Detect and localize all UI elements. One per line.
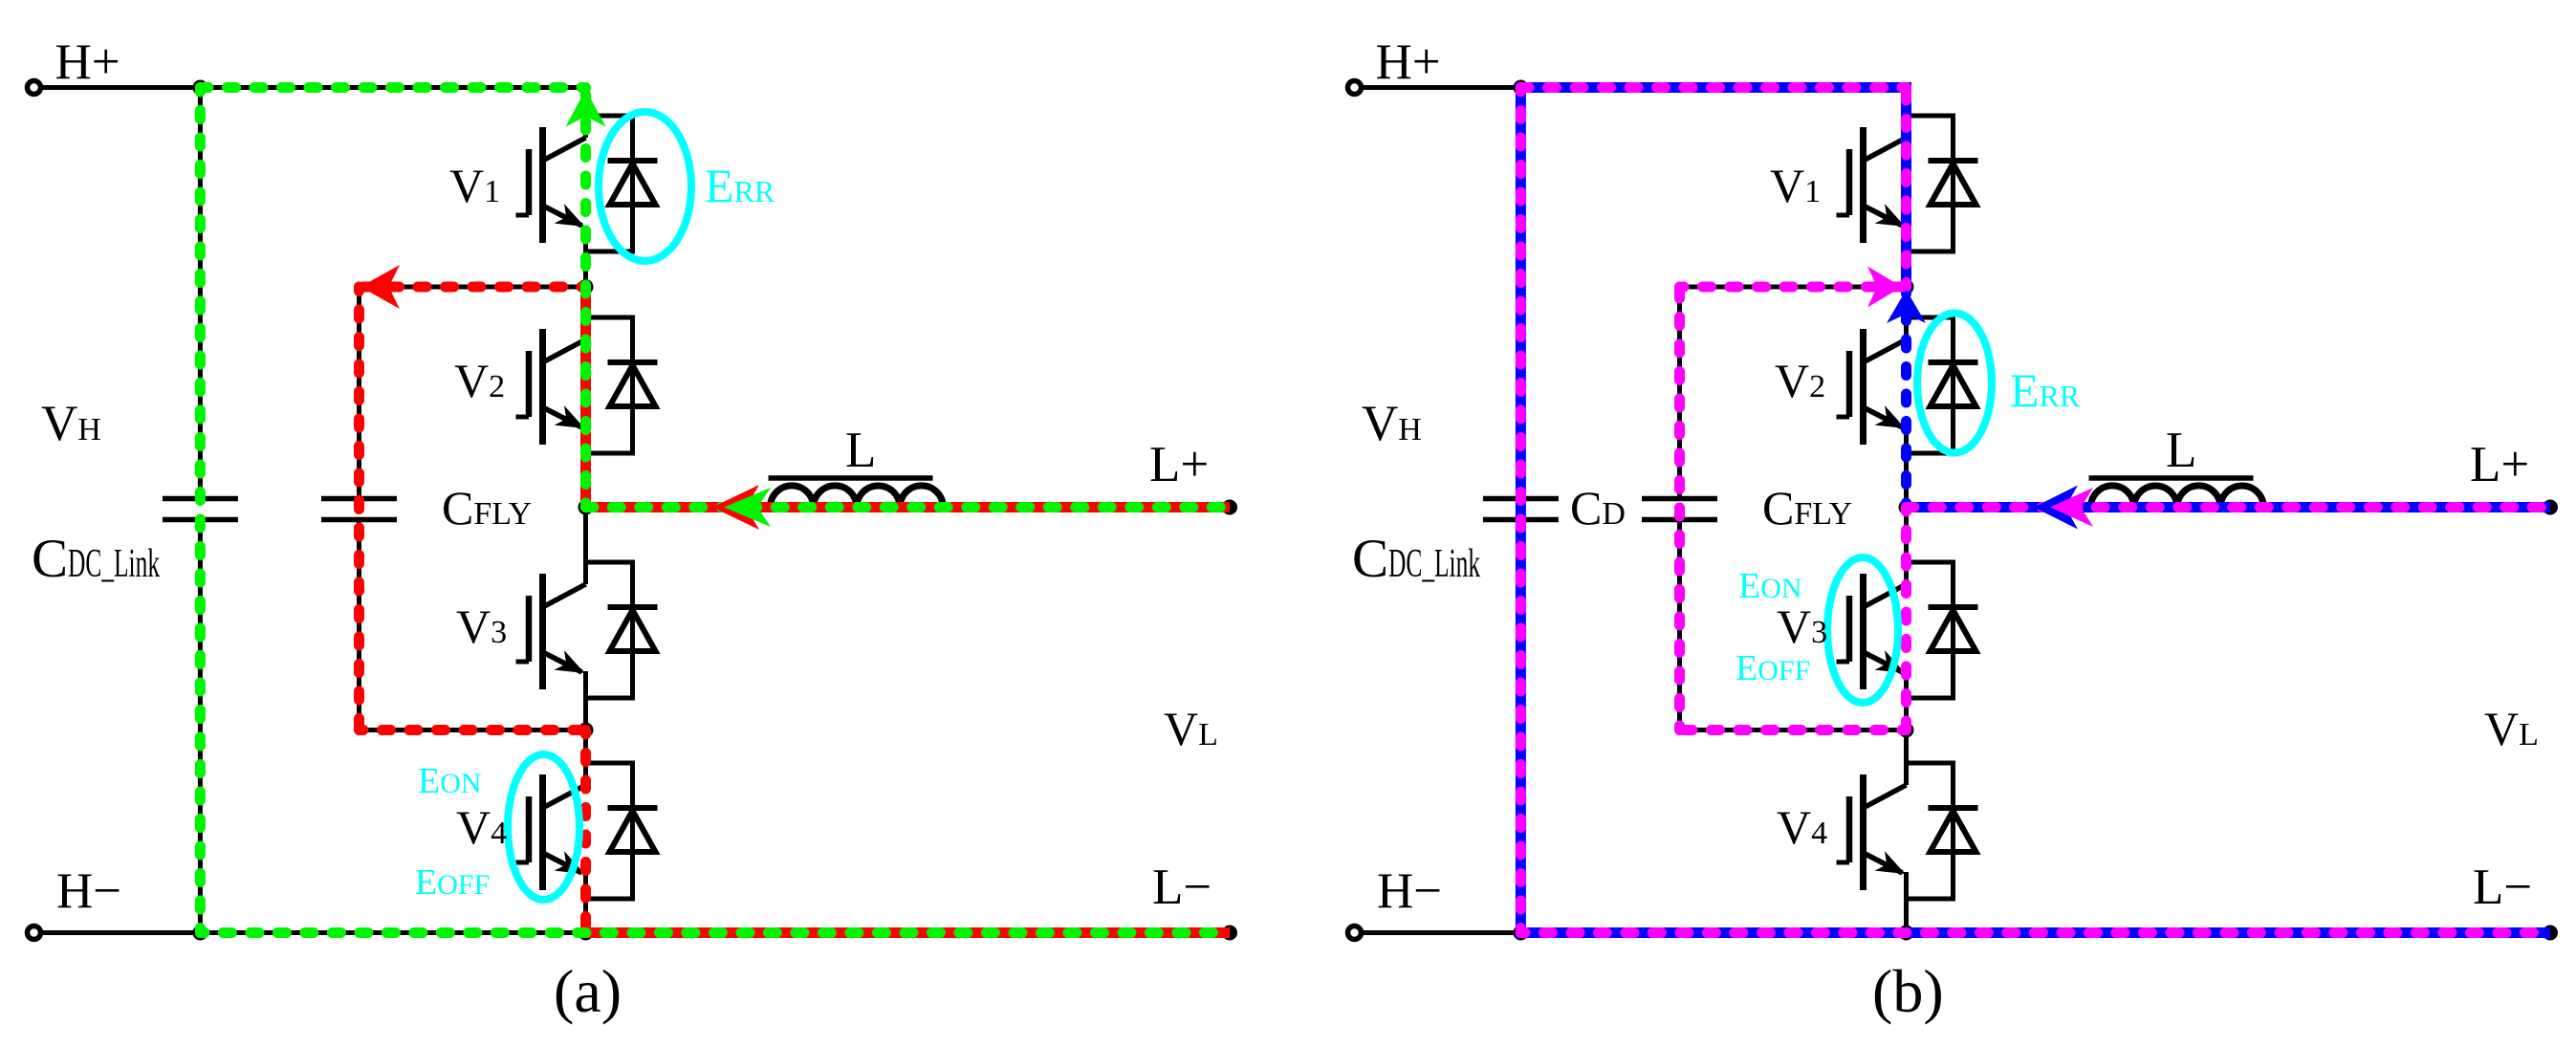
transistor V1 (a) collector diagonal [543,138,586,161]
red solid underlay (shared segments) (a) [580,287,591,508]
transistor V3 (a) emitter connector [583,696,633,701]
transistor V1 (a) collector connector [583,114,633,119]
svg-text:L+: L+ [2470,437,2529,492]
magenta dashed path (b) [1907,502,2551,512]
diode D1 (a) cathode bar [608,158,658,163]
diode D2 (b) cathode bar [1929,360,1978,365]
wire loop top (a) [360,285,586,290]
diode D1 (b) cathode bar [1929,158,1978,163]
transistor V1 (b) collector stub [1904,114,1909,139]
transistor V1 (a) emitter arrow [555,204,590,236]
wire bottom rail (b) [1355,930,2551,935]
svg-text:H−: H− [56,863,121,919]
svg-text:(a): (a) [554,957,622,1025]
diode D2 (b) lead [1951,316,1955,456]
transistor V3 (a) gate bar [526,596,533,662]
transistor V1 (a) emitter connector [583,250,633,254]
transistor V3 (b) collector stub [1904,560,1909,585]
transistor V4 (b) emitter connector [1904,897,1954,902]
node V3-V4 junction (b) [1899,723,1914,738]
wire loop left upper (b) [1677,287,1682,496]
svg-text:EON: EON [418,761,482,801]
diode D3 (a) cathode bar [608,604,658,610]
blue dashed V2 segment (b) [1901,287,1911,508]
transistor V4 (b) body bar [1860,774,1867,890]
ellipse EON/EOFF around V4 IGBT (a) [508,754,579,900]
transistor V2 (a) collector diagonal [543,339,586,362]
capacitor CDC_Link (a) top plate [163,496,238,502]
transistor V3 (b) collector connector [1904,560,1954,565]
node bottom-left junction (a) [192,926,207,941]
svg-text:L: L [2166,423,2196,478]
blue solid underlay (shared segments) (b) [1907,502,2551,512]
node top-left junction (b) [1513,80,1528,96]
magenta arrow on mid wire (b) [2050,488,2093,527]
wire loop left upper (a) [357,287,361,496]
transistor V4 (a) emitter connector [583,897,633,902]
wire phase leg segments (b) [1904,88,1909,117]
transistor V4 (b) gate bar [1846,796,1853,862]
svg-text:EOFF: EOFF [1736,648,1810,688]
transistor V1 (a) body bar [539,127,546,243]
transistor V4 (a) body bar [539,774,546,890]
node mid (a) [579,500,594,515]
transistor V1 (b) emitter stub [1904,226,1909,251]
node mid (b) [1899,500,1914,515]
transistor V1 (b) emitter diagonal [1864,206,1903,226]
terminal H- (b) [1348,926,1362,940]
svg-text:EON: EON [1738,566,1802,606]
terminal L+ (a) [1222,500,1237,515]
transistor V3 (a) emitter arrow [555,650,590,683]
transistor V1 (b) collector connector [1904,114,1954,119]
ellipse ERR around V2 diode (b) [1917,314,1992,453]
node V1-V2 junction (a) [579,279,594,294]
transistor V3 (b) gate lead [1837,660,1850,665]
diode D4 (a) triangle [610,811,656,852]
transistor V1 (b) gate lead [1837,213,1850,218]
capacitor CDC_Link (b) bottom plate [1483,517,1559,523]
transistor V4 (b) emitter stub [1904,873,1909,899]
transistor V3 (b) gate bar [1846,596,1853,662]
transistor V2 (a) gate lead [516,415,530,420]
terminal H+ (b) [1348,81,1362,95]
transistor V2 (a) gate bar [526,351,533,417]
diode D2 (a) cathode bar [608,360,658,365]
transistor V3 (b) body bar [1860,574,1867,689]
svg-text:EOFF: EOFF [415,862,490,903]
transistor V3 (a) emitter diagonal [543,652,582,672]
transistor V2 (b) emitter arrow [1875,405,1910,438]
transistor V1 (b) collector diagonal [1864,138,1907,161]
capacitor CFLY (a) top plate [321,496,397,502]
transistor V2 (b) gate lead [1837,415,1850,420]
transistor V2 (b) body bar [1860,329,1867,445]
transistor V1 (b) emitter arrow [1875,204,1910,236]
wire loop left lower (a) [357,522,361,730]
ellipse EON/EOFF around V3 IGBT (b) [1827,557,1898,703]
transistor V1 (a) collector stub [583,114,588,139]
transistor V2 (a) collector connector [583,316,633,320]
transistor V2 (b) collector stub [1904,316,1909,340]
node bottom-mid junction (a) [579,926,594,941]
terminal L+ (b) [2543,500,2558,515]
transistor V1 (b) emitter connector [1904,250,1954,254]
svg-text:L−: L− [2473,860,2532,915]
transistor V2 (a) body bar [539,329,546,445]
diode D2 (a) triangle [610,365,656,406]
diode D4 (b) triangle [1931,811,1976,852]
wire left rail upper (a) [198,88,203,497]
svg-text:L: L [845,423,876,478]
diode D3 (b) cathode bar [1929,604,1978,610]
green arrow up at top of V1 (a) [566,90,606,127]
diode D4 (b) lead [1951,761,1955,902]
red dashed loop path (a) [360,282,586,293]
inductor L (b) coils [2091,486,2264,508]
green arrow on mid wire (a) [724,488,771,527]
transistor V2 (a) emitter connector [583,451,633,456]
transistor V4 (a) collector connector [583,761,633,766]
diode D1 (a) triangle [610,163,656,205]
transistor V4 (a) emitter diagonal [543,853,582,873]
terminal H- (a) [28,926,41,940]
transistor V3 (a) collector diagonal [543,584,586,607]
transistor V4 (b) collector stub [1904,761,1909,786]
transistor V4 (b) emitter diagonal [1864,853,1903,873]
diode D3 (b) triangle [1931,610,1976,651]
wire top rail (a) [200,85,585,90]
red arrow on mid wire (a) [712,485,759,530]
svg-text:L+: L+ [1149,437,1209,492]
transistor V2 (a) emitter stub [583,427,588,453]
capacitor CDC_Link (a) bottom plate [163,517,238,523]
transistor V3 (a) gate lead [516,660,530,665]
diode D3 (b) lead [1951,560,1955,701]
svg-text:H−: H− [1377,863,1442,919]
capacitor CDC_Link (b) top plate [1483,496,1559,502]
transistor V4 (a) collector stub [583,761,588,786]
capacitor CFLY (a) bottom plate [321,517,397,523]
wire mid output (b) [1907,505,2551,510]
wire left rail upper (b) [1518,88,1523,497]
transistor V1 (a) gate bar [526,149,533,215]
node V3-V4 junction (a) [579,723,594,738]
inductor L (a) core bar [769,475,933,481]
transistor V4 (b) gate lead [1837,861,1850,865]
inductor L (b) core bar [2089,475,2254,481]
terminal L- (b) [2543,926,2558,941]
transistor V3 (a) body bar [539,574,546,689]
transistor V4 (b) emitter arrow [1875,851,1910,883]
transistor V2 (a) emitter diagonal [543,407,582,427]
transistor V3 (b) emitter connector [1904,696,1954,701]
svg-text:H+: H+ [1376,34,1441,90]
capacitor CD (b) bottom plate [1642,517,1717,523]
transistor V3 (a) emitter stub [583,672,588,698]
transistor V3 (b) emitter arrow [1875,650,1910,683]
transistor V3 (a) collector connector [583,560,633,565]
inductor L (a) coils [771,486,944,508]
transistor V2 (b) collector diagonal [1864,339,1907,362]
diode D4 (a) lead [630,761,635,902]
node top-left junction (a) [192,80,207,96]
transistor V3 (b) emitter diagonal [1864,652,1903,672]
node bottom-left junction (b) [1513,926,1528,941]
terminal H+ (a) [28,81,41,95]
diode D3 (a) triangle [610,610,656,651]
blue arrow up into V1-V2 junction (b) [1887,290,1926,323]
wire mid output (a) [586,505,1231,510]
transistor V1 (a) emitter stub [583,226,588,251]
transistor V2 (a) collector stub [583,316,588,340]
diode D2 (b) triangle [1931,365,1976,406]
wire loop bottom (b) [1680,728,1907,732]
transistor V3 (b) collector diagonal [1864,584,1907,607]
transistor V2 (b) collector connector [1904,316,1954,320]
wire loop top (b) [1680,285,1907,290]
transistor V1 (b) gate bar [1846,149,1853,215]
diode D4 (a) cathode bar [608,805,658,811]
transistor V4 (a) collector diagonal [543,785,586,808]
wire bottom rail (a) [34,930,1231,935]
transistor V1 (b) body bar [1860,127,1867,243]
transistor V2 (a) emitter arrow [555,405,590,438]
terminal L- (a) [1222,926,1237,941]
wire left rail lower (a) [198,522,203,933]
diode D4 (b) cathode bar [1929,805,1978,811]
capacitor CD (b) top plate [1642,496,1717,502]
diode D2 (a) lead [630,316,635,456]
wire top rail (b) [1520,85,1906,90]
diode D1 (b) triangle [1931,163,1976,205]
diode D1 (b) lead [1951,114,1955,254]
transistor V1 (a) emitter diagonal [543,206,582,226]
wire H+ stub (a) [34,85,201,90]
transistor V4 (a) gate lead [516,861,530,865]
transistor V4 (a) gate bar [526,796,533,862]
transistor V2 (b) emitter stub [1904,427,1909,453]
wire left rail lower (b) [1518,522,1523,933]
diode D3 (a) lead [630,560,635,701]
transistor V4 (a) emitter arrow [555,851,590,883]
transistor V2 (b) emitter connector [1904,451,1954,456]
transistor V3 (b) emitter stub [1904,672,1909,698]
node V1-V2 junction (b) [1899,279,1914,294]
transistor V2 (b) gate bar [1846,351,1853,417]
wire phase leg segments (a) [583,88,588,117]
transistor V2 (b) emitter diagonal [1864,407,1903,427]
svg-text:L−: L− [1152,860,1212,915]
transistor V1 (a) gate lead [516,213,530,218]
transistor V4 (b) collector diagonal [1864,785,1907,808]
node bottom-mid junction (b) [1899,926,1914,941]
blue arrow on mid wire (b) [2034,486,2078,530]
wire loop bottom (a) [360,728,586,732]
wire H+ stub (b) [1355,85,1521,90]
transistor V4 (b) collector connector [1904,761,1954,766]
red arrow on loop top (a) [360,265,400,309]
svg-text:(b): (b) [1872,957,1944,1025]
transistor V3 (a) collector stub [583,560,588,585]
svg-text:H+: H+ [55,34,120,90]
wire loop left lower (b) [1677,522,1682,730]
transistor V4 (a) emitter stub [583,873,588,899]
diode D1 (a) lead [630,114,635,254]
ellipse ERR around V1 diode (a) [599,112,691,261]
green dashed path (a) [586,502,1231,512]
magenta arrow on loop top (b) [1867,267,1902,308]
